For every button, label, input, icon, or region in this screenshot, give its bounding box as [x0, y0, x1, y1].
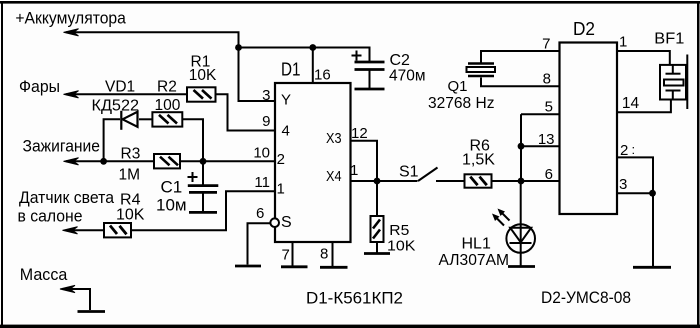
- capacitor C1: [188, 186, 219, 193]
- junction HL1 node: [518, 178, 525, 185]
- junction D2 pin 13: [518, 143, 525, 150]
- svg-text:11: 11: [254, 174, 270, 191]
- svg-text:C1: C1: [161, 178, 183, 197]
- svg-text:Датчик света: Датчик света: [19, 188, 114, 207]
- wire pin 7 stub: [292, 242, 294, 266]
- svg-text:8: 8: [543, 71, 551, 88]
- svg-text:R3: R3: [121, 145, 141, 162]
- wire D2 pin 2 down: [617, 157, 653, 267]
- junction ignition line left: [100, 158, 107, 165]
- wire pin S to ground: [248, 223, 271, 264]
- wire R5 bottom lead: [376, 242, 378, 253]
- svg-text:S: S: [281, 214, 292, 231]
- ground C1: [189, 211, 217, 214]
- svg-text:1,5K: 1,5K: [462, 151, 495, 168]
- svg-text:9: 9: [262, 113, 270, 130]
- svg-text:6: 6: [545, 166, 553, 183]
- svg-text:7: 7: [282, 247, 290, 264]
- svg-text:R2: R2: [157, 79, 177, 96]
- pin S inversion circle: [270, 218, 279, 227]
- svg-text:+Аккумулятора: +Аккумулятора: [15, 9, 126, 28]
- svg-text:Фары: Фары: [19, 77, 60, 96]
- wire R6 to D2 pin 6: [492, 180, 560, 182]
- resistor R3: [154, 154, 180, 168]
- svg-text:13: 13: [538, 131, 555, 148]
- wire pin16 drop: [312, 48, 314, 84]
- svg-text:VD1: VD1: [105, 78, 135, 95]
- junction supply rail pin 16: [309, 44, 316, 51]
- ground C2: [355, 88, 385, 91]
- svg-text::: :: [632, 142, 636, 157]
- wire R2 branch right: [182, 119, 203, 161]
- wire C2 bottom lead: [369, 71, 371, 89]
- resistor R1: [187, 87, 216, 101]
- diode VD1: [121, 111, 137, 130]
- svg-text:14: 14: [622, 95, 640, 112]
- ground D2 pins 2,3: [633, 266, 671, 269]
- wire R3 to pin 10: [180, 160, 275, 162]
- svg-text:4: 4: [282, 123, 290, 140]
- wire to pin 3: [239, 48, 276, 102]
- chip D2: [560, 43, 618, 215]
- wire X4 pin 1 to switch: [351, 180, 418, 182]
- svg-text:2: 2: [620, 142, 628, 159]
- svg-text:8: 8: [320, 246, 328, 263]
- svg-text:D2: D2: [573, 19, 595, 39]
- svg-text:10: 10: [253, 145, 270, 162]
- svg-text:в салоне: в салоне: [18, 206, 83, 225]
- svg-text:D1: D1: [281, 60, 301, 80]
- svg-text:BF1: BF1: [654, 30, 684, 47]
- resistor R2: [152, 112, 182, 126]
- junction X4 / R5: [374, 178, 381, 185]
- ground D1 pin 6: [235, 265, 261, 268]
- LED HL1: [506, 224, 535, 253]
- crystal Q1: [467, 64, 496, 77]
- resistor R4: [104, 223, 131, 237]
- svg-text:10K: 10K: [189, 67, 217, 84]
- wire HL1 lead: [520, 181, 522, 266]
- svg-text:Зажигание: Зажигание: [23, 137, 101, 156]
- svg-text:16: 16: [314, 67, 331, 84]
- svg-text:3: 3: [262, 87, 270, 104]
- svg-text:АЛ307АМ: АЛ307АМ: [439, 252, 510, 269]
- svg-text:1: 1: [350, 162, 358, 179]
- wire R4 to pin 11: [131, 191, 275, 230]
- wire pin 8 stub: [332, 242, 334, 266]
- wire R1 to pin 9: [216, 94, 276, 130]
- chip D1: [275, 83, 351, 242]
- svg-text:D2-УМС8-08: D2-УМС8-08: [541, 288, 631, 307]
- wire D2 pin 7 / crystal top: [481, 51, 560, 63]
- svg-text:S1: S1: [399, 163, 419, 180]
- svg-text:12: 12: [351, 125, 368, 142]
- junction D2 pin 3 ground: [649, 190, 656, 197]
- LED arrows: [495, 211, 510, 226]
- wire C1 bottom lead: [202, 194, 204, 212]
- svg-text:3: 3: [619, 176, 627, 193]
- wire switch to R6: [436, 180, 465, 182]
- svg-text:1M: 1M: [119, 167, 141, 184]
- wire C1 top lead: [202, 161, 204, 184]
- wire D2 pin 14 to BF1: [617, 100, 671, 113]
- wire diode branch left: [104, 119, 120, 161]
- wire D2 pin 3: [617, 192, 653, 194]
- resistor R5 (vertical): [371, 216, 384, 242]
- capacitor C2: [355, 62, 385, 70]
- wire diode to R2: [139, 118, 152, 120]
- node +battery: wire: [66, 32, 239, 47]
- wire D2 pin 1 to BF1: [617, 51, 670, 65]
- svg-text:Q1: Q1: [448, 78, 468, 95]
- wire D2 left vertical: [520, 114, 522, 181]
- arrow ground Масса: [60, 285, 75, 292]
- wire R5 top lead: [376, 181, 378, 216]
- svg-text:КД522: КД522: [92, 98, 140, 115]
- switch S1 blade: [418, 168, 438, 182]
- arrow +battery: [64, 29, 79, 36]
- svg-text:32768 Hz: 32768 Hz: [428, 95, 495, 112]
- svg-text:1: 1: [619, 33, 627, 50]
- C2 plus sign: [352, 51, 362, 61]
- svg-text:D1-К561КП2: D1-К561КП2: [306, 289, 403, 308]
- C1 plus sign: [188, 172, 198, 182]
- ground D1 pin 7: [281, 265, 308, 268]
- wire D2 pin 8 / crystal bottom: [481, 78, 560, 87]
- svg-text:10K: 10K: [116, 207, 145, 224]
- arrow ignition: [64, 158, 79, 165]
- ground Масса: [78, 310, 106, 313]
- svg-text:HL1: HL1: [462, 235, 491, 252]
- wire top rail: [239, 48, 370, 63]
- svg-text:10K: 10K: [387, 238, 416, 255]
- wire D2 pin 13: [521, 145, 560, 147]
- svg-text:1: 1: [277, 181, 285, 198]
- wire headlights row: [66, 93, 187, 95]
- wire ignition row: [66, 160, 154, 162]
- svg-text:7: 7: [542, 36, 550, 53]
- ground R5: [364, 252, 390, 255]
- wire light sensor row: [66, 229, 104, 231]
- ground HL1: [508, 265, 535, 268]
- svg-text:6: 6: [256, 205, 264, 222]
- svg-text:5: 5: [545, 99, 553, 116]
- svg-text:Y: Y: [281, 92, 291, 109]
- ground D1 pin 8: [320, 266, 348, 269]
- svg-text:2: 2: [277, 151, 285, 168]
- buzzer BF1: [660, 55, 687, 110]
- svg-text:Масса: Масса: [20, 265, 68, 284]
- junction ignition line C1: [200, 158, 207, 165]
- arrow headlights: [64, 91, 79, 98]
- svg-text:10м: 10м: [156, 196, 187, 215]
- wire D2 pin 5: [521, 113, 560, 115]
- arrow light sensor: [63, 227, 78, 234]
- resistor R6: [465, 174, 492, 187]
- svg-text:100: 100: [155, 97, 181, 114]
- wire X3 pin 12: [351, 141, 378, 181]
- svg-text:X4: X4: [326, 168, 342, 185]
- svg-text:X3: X3: [326, 130, 342, 147]
- svg-text:470м: 470м: [389, 67, 426, 84]
- wire ground lead Массa: [64, 289, 90, 310]
- junction supply rail left: [235, 44, 242, 51]
